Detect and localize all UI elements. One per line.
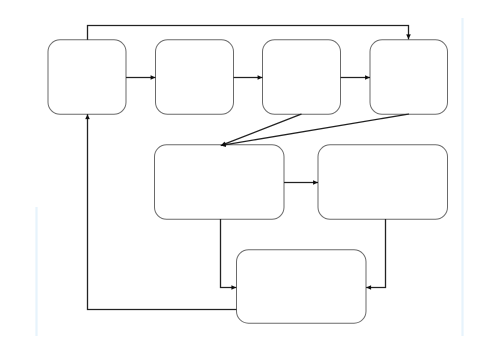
page guide right bbox=[461, 18, 463, 336]
box 4 bbox=[370, 40, 448, 115]
connector box6 bottom to box7 right bbox=[366, 219, 385, 288]
box 7 bbox=[237, 250, 367, 323]
connector box4 bottom to box5 top bbox=[221, 114, 409, 146]
box 2 bbox=[156, 40, 234, 115]
connector box3 bottom to box5 top bbox=[221, 114, 302, 146]
connector box7 left to box1 bottom bbox=[88, 114, 237, 309]
connector box5 to box6 bbox=[284, 182, 318, 184]
page guide left bbox=[35, 207, 37, 336]
connector box1 top to box4 top bbox=[88, 26, 409, 40]
connector box2 to box3 bbox=[234, 77, 263, 79]
box 5 bbox=[155, 145, 285, 220]
connector box1 to box2 bbox=[126, 77, 156, 79]
connector box5 bottom to box7 left bbox=[221, 219, 237, 288]
box 6 bbox=[318, 145, 448, 220]
connector box3 to box4 bbox=[341, 77, 371, 79]
box 1 bbox=[48, 40, 126, 115]
box 3 bbox=[263, 40, 341, 115]
